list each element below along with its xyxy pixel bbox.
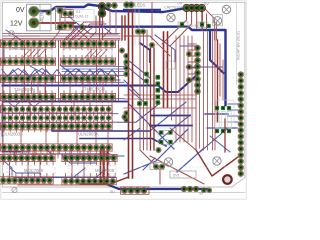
svg-text:12V: 12V [10,21,23,28]
wire red right bundle [175,36,177,142]
svg-text:K1: K1 [76,10,81,14]
board outline frame [1,1,246,199]
wire red horizontal bottom left 2 [3,153,61,155]
wire blue diag topmid2 [70,26,84,40]
hole at 217,161 [213,157,221,165]
wire red vertical 199 [199,80,201,148]
wire blue zigzag 3 [64,69,112,78]
OK1/OK2 top row right [62,154,117,161]
wire blue rail above bottom row [14,176,115,178]
wire red stubs band1 [3,47,5,50]
pad aux K1 left [46,10,51,15]
red outline fuse area [56,8,66,30]
wire red diagonal bl [140,150,160,184]
svg-text:LU+M: LU+M [189,24,198,28]
svg-text:74HC595N: 74HC595N [14,87,35,92]
wire red long vertical left edge [2,40,4,150]
wire red vertical top mid [151,3,153,41]
wire blue zigzag 2 [6,69,54,78]
OK1/OK2 bottom row left [0,177,53,184]
wire red tr diag [202,6,215,19]
wire thick blue 0V rail top [103,8,184,13]
wire blue zigzag band between IC rows [2,70,118,77]
wire blue diag bottomright 4 [200,128,228,152]
wire red stubs band2 [3,82,5,85]
header row JP1 b [2,115,7,120]
relay K1 pads [62,11,67,16]
wire red long vertical 2 [29,100,31,120]
fuse F1 outline [56,8,66,30]
wire thick blue inner vertical [210,30,224,73]
left col pads x=126 [124,53,129,58]
wire thick blue 0V rail top jog [34,5,98,12]
pad D1-1 [99,3,105,9]
wire thick red LEDS bus 2 [132,10,134,178]
IC outlines band1 [3,49,52,58]
pad K1-5 [79,24,84,29]
wire red fan band1 [23,50,30,58]
wire thick red bottom 1 [100,148,102,184]
wire red long vertical [24,40,26,100]
silkscreen dashed line bottom right [140,166,244,168]
IC3/IC4 top row right [60,75,115,82]
wire blue diag bottomright 1b [129,104,174,149]
wire blue horizontal mid [4,113,118,115]
mid column pads x=198 [195,45,201,51]
wire blue diag opto2 [90,170,105,182]
IC5/IC6 top row [0,123,112,130]
wire blue right mid2 [186,66,222,68]
red outline relay K1 pads [62,10,74,18]
relay K1 outline [73,10,94,22]
pad top J [106,3,112,9]
wire blue low left diag2 [40,146,70,154]
svg-text:QUA1-12: QUA1-12 [75,15,89,19]
wire dark red 225 [224,119,226,152]
pad F1-2 [57,24,63,30]
svg-text:0V: 0V [16,7,25,14]
wire red diagonal br2 [150,156,204,184]
wire blue diagonal top [66,14,118,34]
IC1/IC2 bottom row right [60,58,115,65]
svg-text:LEDS: LEDS [135,2,146,7]
wire thick blue rail mid + right vertical [75,27,226,105]
wire red vertical 171 [171,48,173,120]
wire red tr vert 4 [215,22,217,40]
wire red horizontal right [124,94,196,96]
wire blue horizontal low [20,153,110,155]
wire blue diag right 2 [124,64,148,84]
wire red vertical 223 [222,60,224,100]
wire blue horizontal [62,66,124,68]
wire blue diag bottomright [124,129,188,174]
wire thick blue rail 115 [151,115,190,117]
wire red stubs below row 126.3 [3,129,5,132]
wire blue bend NE [118,103,160,122]
wire thick red mid bus 1 [163,32,165,107]
resistor cluster pads right [215,106,219,110]
wire red diagonal tl [6,36,40,46]
wire red tr vert 2 [206,14,208,30]
wire blue horizontal y98 [0,98,124,100]
wire red from D1 b [102,16,104,40]
pad X1-1 [29,6,39,16]
IC1/IC2 top row right [60,40,115,47]
wire blue left edge vertical [1,104,3,136]
silkscreen line leds 1 [134,3,136,46]
wire blue horizontal 82 [0,81,124,83]
hole at 171,17.5 [167,13,175,21]
pads mid cluster [137,101,142,106]
svg-text:74HC595N: 74HC595N [84,87,105,92]
wire blue horizontal y156 [62,155,124,157]
hole bottom-left small circle [12,187,17,192]
wire thick red bottom join [110,177,129,184]
secondary column pads x=189 [186,51,191,56]
OK1/OK2 top row left [0,154,55,161]
right edge connector pads [238,72,244,78]
transistor column pads x=158 [156,75,161,80]
wire red from pad B [170,11,192,46]
wire red from pad A [162,11,187,44]
svg-text:74HC595: 74HC595 [9,46,27,51]
wire blue diag bottomright 3 [143,158,155,170]
wire blue zigzag mid2 [26,100,42,107]
wire red comb band3 [4,112,6,116]
svg-text:MOC7005: MOC7005 [24,168,44,173]
wire thick blue row rail 1 [3,73,200,92]
wire thick blue bend [140,43,150,62]
wire red mid bundle [139,30,141,150]
svg-text:5U: 5U [110,190,115,194]
wire blue right mid [155,35,175,62]
diode pads D1 [98,3,106,11]
wire thick red 12V [34,22,75,24]
svg-text:SV1: SV1 [173,174,180,178]
wire red diagonal br [170,128,196,150]
wire blue [3,47,5,58]
wire blue horizontal mid2 [4,121,118,123]
wire thick red bottom elbow [80,148,108,184]
wire red below bottom row [18,184,110,186]
wire blue horizontal above band2 [0,74,124,76]
wire red tr vert 3 [214,20,216,40]
wire thick blue row rail 3a [52,125,150,132]
hole top-left small circle [9,31,15,37]
wire red stubs 147.5-158 [3,151,5,154]
hole at 168.5,162 [164,158,172,166]
wire red diagonal tl3 [66,36,88,44]
via pad small top mid [119,48,124,53]
wire blue diag mid right4 [210,136,230,152]
wire blue to edge [228,103,238,105]
svg-text:INCAP BV-20131: INCAP BV-20131 [237,31,241,60]
wire blue diag opto1 [70,168,85,180]
wire blue diag bottomright 2 [177,148,204,172]
wire red from D1 a [99,16,101,40]
pad F1-1 [57,7,63,13]
hole big bottom right [223,175,232,184]
wire thick blue row rail 3b [80,139,166,147]
wire red vertical 220 [219,44,221,96]
IC1/IC2 top row left [0,40,55,47]
wire red horizontal bottom left [3,150,76,152]
svg-text:B: B [162,89,164,93]
wire blue low left diag [8,144,30,152]
IC3/IC4 bottom row right [60,93,115,100]
wire thick red bottom 2 [103,148,105,184]
header row JP1 a [0,106,112,113]
svg-text:ALIM: ALIM [40,10,46,22]
wire blue diag mid right2 [128,88,146,104]
wire blue rail continue [124,9,160,11]
wire blue diagonal [30,66,52,78]
IC3/IC4 bottom row left [0,93,55,100]
wire blue diag mid right5 [124,128,140,140]
wire blue diag NE 1 [150,102,186,131]
wire red stubs band4 [3,161,5,165]
pad red bus end [156,147,161,152]
wire blue short 2 [207,127,236,129]
wire red to mid pads [188,43,196,45]
wire thick red mid bus 2 [167,32,169,107]
silkscreen line leds 2 [138,3,140,46]
via pad mid top [149,42,154,47]
svg-text:K: K [162,96,164,100]
wire blue diagonal [6,30,24,42]
LEDS connector pads [124,2,130,8]
svg-text:CAPTEUR: CAPTEUR [164,5,182,9]
wire thick blue bottom rail [106,184,207,189]
wire blue left low [3,160,13,178]
wire red mid bundle 2 [150,48,152,150]
wire red diagonal mesh top middle [66,22,104,40]
wire red diag right [124,36,170,56]
wire blue from pad [100,16,112,34]
IC1/IC2 bottom row left [0,58,55,65]
wire blue horizontal above band1 [0,39,120,41]
pad CAPTEUR-1 [184,5,190,11]
jumper pads right top [180,22,184,26]
wire thick blue row rail 2 [3,101,128,103]
wire blue low mid [62,155,96,163]
pad D1-2 [99,10,105,16]
capteur connector pads [183,4,190,11]
wire red fuse link [59,13,61,25]
wire red vertical to band4 [13,148,15,159]
wire blue diag NE 2 [158,115,190,141]
wire dark red right [217,40,219,122]
wire thick red LEDS bus 1 [128,10,130,178]
wire blue opto left [10,168,40,173]
wire blue short [205,113,228,115]
wire blue diag topmid1 [64,26,78,40]
bottom edge pads [121,187,150,194]
pad X1-2 [29,18,39,28]
svg-text:ULN2803A: ULN2803A [3,132,24,137]
wire blue diagonal [60,65,120,80]
wire thick blue short rail [150,125,192,127]
wire blue zigzag mid1 [6,100,22,107]
wire red right bundle 2 [203,32,205,150]
wire red diagonal tl2 [46,30,60,46]
silkscreen: terminal block ALIM [27,4,52,31]
wire red from pad C [196,11,198,28]
wire red from pad D [201,11,203,30]
svg-text:ULN2803A: ULN2803A [78,132,99,137]
OK1/OK2 bottom row right [62,178,116,185]
hole at 226.5,9.5 [222,5,230,13]
IC3/IC4 top row left [0,75,55,82]
wire blue diag mid right [124,80,140,118]
svg-text:E: E [162,76,164,80]
wire red vertical 196 [195,60,197,150]
misc silkscreen boxes right [150,163,164,170]
wire red V bottom right [196,150,238,176]
wire blue diag right [128,60,150,78]
wire red stubs 97-111 [3,100,5,103]
wire blue right top [180,45,196,47]
IC5/IC6 bottom row [0,144,112,151]
svg-text:MOC7005: MOC7005 [95,168,115,173]
hole at 217.5,20.8 [213,17,221,25]
wire red tr vert 1 [202,10,204,30]
wire red horizontal top [3,33,120,35]
